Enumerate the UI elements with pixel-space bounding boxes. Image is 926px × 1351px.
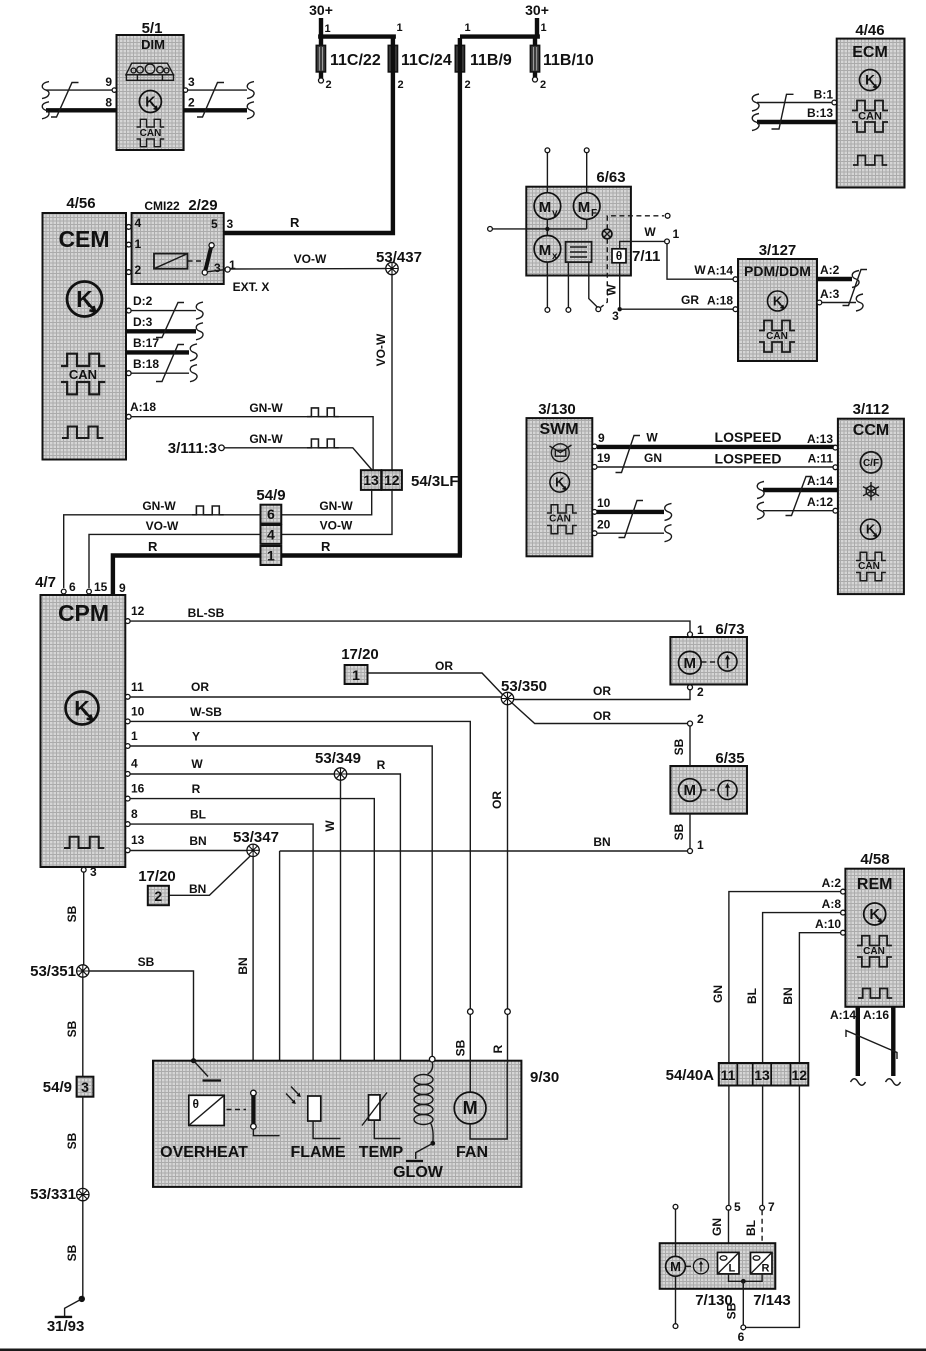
svg-text:1: 1: [135, 237, 142, 251]
slash D:2/D:3 harness: [156, 303, 184, 338]
svg-text:A:8: A:8: [822, 897, 842, 911]
svg-text:B:17: B:17: [133, 336, 159, 350]
fan motor unit 6/73: [670, 621, 747, 685]
svg-text:3: 3: [81, 1079, 89, 1095]
motor Mx: [534, 236, 561, 263]
K icon CEM: [67, 282, 102, 317]
svg-text:OVERHEAT: OVERHEAT: [160, 1144, 248, 1161]
connector 17/20 terminal 1: [341, 646, 379, 684]
wire W splice 53/349 down to FLAME right: [323, 780, 341, 1138]
svg-text:FAN: FAN: [456, 1144, 488, 1161]
wire SB CPM pin3 down left column: [65, 872, 84, 965]
svg-text:L: L: [729, 1263, 736, 1275]
svg-text:B:18: B:18: [133, 357, 159, 371]
svg-text:VO-W: VO-W: [294, 252, 327, 266]
svg-text:11B/10: 11B/10: [543, 52, 594, 69]
svg-text:3: 3: [90, 865, 97, 879]
connector 54/9 terminal 3: [43, 1077, 94, 1097]
mirror timer icon: [693, 1259, 708, 1274]
svg-text:M: M: [684, 782, 697, 799]
svg-text:6: 6: [738, 1330, 745, 1344]
svg-text:13: 13: [131, 833, 145, 847]
glow switch contact: [393, 1141, 444, 1181]
wire W LOSPEED SWM-9 to CCM A:13 (thick): [592, 429, 838, 450]
svg-text:11: 11: [131, 680, 144, 694]
connector 54/9 (6,4,1): [256, 487, 285, 565]
svg-text:1: 1: [131, 729, 138, 743]
6/35 pin2 wire SB: [672, 712, 704, 766]
slash SWM 10/20 harness: [619, 501, 644, 538]
CEM pin B:18 wire: [126, 357, 197, 382]
svg-text:OR: OR: [490, 791, 504, 809]
svg-text:BL: BL: [745, 988, 759, 1004]
PDM pin A:2 wire (thick): [817, 263, 859, 288]
fuse 11B/10: [530, 38, 593, 91]
overheat switch: [251, 1090, 280, 1136]
wiper steering wheel module SWM 3/130: [527, 401, 593, 556]
flame sensor: [290, 1096, 345, 1161]
wire OR splice 53/350 to 6/73 pin2: [514, 684, 690, 700]
wire OR splice 53/350 down to fan connector: [490, 705, 508, 1009]
slash CCM harness: [786, 477, 813, 516]
svg-text:1: 1: [697, 838, 704, 852]
svg-text:5: 5: [734, 1200, 741, 1214]
svg-text:8: 8: [131, 807, 138, 821]
svg-text:R: R: [290, 215, 300, 230]
wire BL REM A:8 to 54/40A-13: [745, 897, 845, 1063]
svg-text:W: W: [191, 757, 203, 771]
K icon CPM: [66, 692, 99, 725]
svg-text:CAN: CAN: [858, 561, 880, 572]
wire VO-W relay 2/29 to splice 53/437: [230, 252, 386, 269]
svg-text:M: M: [539, 199, 552, 216]
wire GN-W 54/9-6 to CPM pin 6: [64, 499, 261, 588]
svg-text:4: 4: [267, 527, 275, 543]
svg-text:OR: OR: [593, 709, 611, 723]
svg-text:LOSPEED: LOSPEED: [715, 429, 782, 445]
svg-text:A:16: A:16: [863, 1008, 889, 1022]
wire GR 7/11 pin3 to PDM A:18: [612, 263, 738, 323]
square wave icon ECM: [853, 156, 887, 166]
svg-text:R: R: [148, 539, 158, 554]
wire R thick 54/9-1 to CPM pin 9: [113, 539, 261, 596]
svg-text:6/73: 6/73: [715, 621, 744, 638]
CAN icon PDM: [759, 321, 795, 353]
svg-text:OR: OR: [435, 659, 453, 673]
REM pin A:14 wire (thick): [830, 1006, 866, 1085]
svg-text:EXT. X: EXT. X: [233, 280, 270, 294]
K icon SWM: [550, 473, 570, 493]
svg-text:12: 12: [384, 472, 400, 488]
svg-text:53/351: 53/351: [30, 963, 76, 980]
svg-text:10: 10: [131, 705, 145, 719]
K icon PDM: [768, 291, 788, 311]
CEM pin B:17 wire (thick): [126, 336, 197, 361]
CAN icon SWM: [547, 505, 577, 534]
power feed 30+ right: [460, 2, 549, 37]
svg-text:31/93: 31/93: [47, 1318, 85, 1335]
svg-text:53/331: 53/331: [30, 1186, 76, 1203]
svg-text:BN: BN: [236, 957, 250, 974]
fuse 11B/9: [455, 45, 512, 91]
svg-text:B:1: B:1: [814, 88, 834, 102]
svg-text:A:10: A:10: [815, 917, 841, 931]
svg-text:1: 1: [397, 22, 403, 34]
splice 53/437: [376, 249, 422, 275]
wire R thick 54/9-1 right to fuse 11B/9: [281, 553, 462, 557]
svg-text:M: M: [684, 655, 697, 672]
svg-text:3/112: 3/112: [853, 401, 890, 418]
svg-text:2: 2: [540, 79, 546, 91]
wire R CPM pin16 to TEMP left: [125, 782, 374, 1095]
wire splice 53/347 to connector 17/20-2: [169, 856, 251, 896]
svg-text:CAN: CAN: [140, 128, 162, 139]
svg-text:1: 1: [697, 623, 704, 637]
svg-text:9/30: 9/30: [530, 1069, 559, 1086]
ECM pin B:1 wire: [752, 88, 837, 112]
svg-text:BL-SB: BL-SB: [188, 606, 225, 620]
central electronic module CEM 4/56: [43, 195, 127, 460]
square wave icon REM: [858, 989, 892, 999]
svg-text:A:14: A:14: [830, 1008, 856, 1022]
svg-text:4: 4: [131, 757, 138, 771]
svg-text:3/111:3: 3/111:3: [168, 440, 217, 457]
K icon REM: [864, 903, 886, 925]
wire OR 17/20-1 to splice 53/350: [368, 659, 504, 695]
svg-text:A:18: A:18: [707, 294, 733, 308]
svg-text:12: 12: [792, 1067, 808, 1083]
svg-text:R: R: [762, 1263, 770, 1275]
wire GN-W 54/3LF-13 to 54/9-6: [281, 490, 371, 515]
svg-text:17/20: 17/20: [341, 646, 379, 663]
SWM pin 10 wire (thick): [592, 496, 671, 520]
svg-text:15: 15: [94, 580, 108, 594]
wire SB splice 53/351 to 9/30 ground: [89, 955, 194, 1061]
6/35 pin1 wire SB: [672, 814, 704, 854]
svg-text:6: 6: [267, 506, 275, 522]
svg-text:SB: SB: [138, 955, 155, 969]
6/73 pin2 stub: [688, 685, 705, 699]
svg-text:SB: SB: [65, 1244, 79, 1261]
heater assembly 9/30: [153, 1061, 559, 1187]
svg-text:θ: θ: [616, 249, 623, 263]
svg-text:7: 7: [768, 1200, 775, 1214]
svg-text:3: 3: [214, 261, 221, 275]
svg-text:54/9: 54/9: [43, 1079, 72, 1096]
slash REM A:14/A:16 harness: [846, 1031, 897, 1060]
DIM pin 2 wire (thick): [184, 96, 254, 119]
motor M 6/73: [679, 651, 718, 674]
power distribution module PDM/DDM 3/127: [738, 242, 817, 361]
svg-text:GN: GN: [710, 1218, 724, 1236]
svg-text:F: F: [591, 208, 597, 219]
wire R splice 53/349 to TEMP right: [347, 758, 401, 1094]
svg-text:SB: SB: [725, 1302, 739, 1319]
svg-text:2: 2: [398, 79, 404, 91]
wire W CPM pin4 to splice 53/349: [125, 757, 340, 777]
svg-text:53/437: 53/437: [376, 249, 422, 266]
svg-text:A:2: A:2: [820, 263, 840, 277]
motor My: [534, 193, 561, 220]
CAN icon CCM: [856, 552, 886, 581]
wire BN CPM pin13 to splice 53/347: [125, 833, 247, 853]
svg-text:4/58: 4/58: [860, 851, 889, 868]
slash B:17/B:18 harness: [156, 345, 184, 382]
slash ECM harness: [772, 94, 794, 129]
svg-text:W: W: [694, 263, 706, 277]
svg-text:CCM: CCM: [853, 422, 889, 439]
CEM pin D:3 wire (thick): [126, 315, 203, 340]
svg-text:9: 9: [105, 75, 112, 89]
CCM pin A:14 wire (thick): [757, 474, 838, 499]
CPM top pin 6: [61, 580, 76, 594]
svg-text:2: 2: [326, 79, 332, 91]
svg-text:OR: OR: [593, 684, 611, 698]
square wave icon CPM: [64, 837, 104, 848]
wire OR splice 53/350 to 6/35 pin2: [512, 703, 687, 724]
svg-text:SB: SB: [672, 823, 686, 840]
wire GN LOSPEED SWM-19 to CCM A:11: [592, 451, 838, 470]
svg-text:11C/24: 11C/24: [401, 52, 452, 69]
K icon DIM: [139, 91, 161, 113]
svg-text:R: R: [321, 539, 331, 554]
svg-text:53/347: 53/347: [233, 829, 279, 846]
REM pin A:16 wire (thick): [863, 1006, 901, 1085]
heated mirror element L 7/130: [695, 1252, 739, 1309]
wire BN splice 53/347 down to overheat switch: [236, 857, 253, 1091]
wire SB mirror elements to pin6: [725, 1274, 763, 1344]
svg-text:4/7: 4/7: [35, 574, 56, 591]
mirror motor M: [666, 1256, 693, 1276]
wire BN REM A:10 to 54/40A-12: [781, 917, 845, 1063]
PDM pin A:3 wire: [817, 287, 863, 311]
svg-text:R: R: [377, 758, 386, 772]
svg-text:BN: BN: [781, 987, 795, 1004]
svg-text:30+: 30+: [525, 2, 549, 18]
wire VO-W 54/3LF-12 to 54/9-4: [281, 490, 392, 535]
svg-text:D:3: D:3: [133, 315, 153, 329]
svg-text:2: 2: [154, 888, 162, 904]
svg-text:2: 2: [697, 712, 704, 726]
svg-text:LOSPEED: LOSPEED: [715, 451, 782, 467]
svg-text:1: 1: [352, 667, 360, 683]
wire VO-W splice 53/437 down to 54/3LF pin 12: [374, 275, 392, 471]
wire R feed from 11C/24 down to relay 2/29: [194, 38, 393, 248]
CPM bottom pin 3: [81, 865, 97, 879]
engine control module ECM 4/46: [837, 22, 905, 188]
svg-text:20: 20: [597, 518, 611, 532]
wire BN overheat switch to 6/35 pin1: [280, 835, 688, 1136]
svg-text:SB: SB: [65, 1020, 79, 1037]
svg-text:9: 9: [119, 581, 126, 595]
svg-text:1: 1: [673, 227, 680, 241]
connector 54/3LF: [361, 470, 459, 490]
wire BL CPM pin8 to FLAME left: [125, 807, 313, 1096]
svg-text:4: 4: [135, 216, 142, 230]
svg-text:CAN: CAN: [69, 367, 97, 382]
K icon CCM: [861, 519, 881, 539]
timer icon 6/73: [718, 652, 737, 671]
svg-text:CAN: CAN: [549, 514, 571, 525]
svg-text:W-SB: W-SB: [190, 705, 222, 719]
slash SWM 9/19 harness: [616, 436, 641, 473]
C/F icon CCM: [860, 452, 881, 473]
fan connector pins SB / R: [454, 1009, 511, 1064]
svg-text:2: 2: [135, 263, 142, 277]
svg-text:BL: BL: [190, 808, 206, 822]
svg-text:W: W: [323, 820, 337, 832]
svg-text:4/46: 4/46: [855, 22, 884, 39]
wire Y CPM pin1 to glow pin: [125, 729, 432, 1057]
connector 3/111:3 wire GN-W: [168, 432, 372, 470]
svg-text:CEM: CEM: [58, 226, 109, 252]
svg-text:1: 1: [541, 22, 547, 34]
svg-text:3/130: 3/130: [538, 401, 576, 418]
svg-text:54/40A: 54/40A: [666, 1067, 715, 1084]
svg-text:CPM: CPM: [58, 600, 109, 626]
svg-text:D:2: D:2: [133, 294, 153, 308]
svg-text:M: M: [670, 1259, 681, 1274]
relay switch 2/29: [202, 243, 230, 275]
mirror unit housing 7/130 7/143: [660, 1243, 776, 1289]
svg-text:7/143: 7/143: [753, 1292, 791, 1309]
svg-text:PDM/DDM: PDM/DDM: [744, 263, 811, 279]
svg-text:SB: SB: [65, 905, 79, 922]
svg-text:Y: Y: [192, 730, 200, 744]
relay coil 2/29: [154, 254, 203, 269]
splice 53/351: [30, 963, 89, 980]
svg-text:A:14: A:14: [707, 264, 733, 278]
svg-text:1: 1: [325, 23, 331, 35]
connector 17/20 terminal 2: [138, 868, 206, 905]
svg-text:GN-W: GN-W: [249, 401, 283, 415]
CAN icon ECM: [852, 101, 888, 133]
lamp symbol 6/63: [602, 229, 612, 239]
svg-text:11B/9: 11B/9: [470, 52, 512, 69]
svg-text:GN-W: GN-W: [249, 432, 283, 446]
svg-text:TEMP: TEMP: [359, 1144, 404, 1161]
wire W 7/11 to pin 1: [620, 225, 680, 249]
svg-text:3/127: 3/127: [759, 242, 797, 259]
rear electronic module REM 4/58: [845, 851, 904, 1007]
mirror motor stub wires: [673, 1204, 678, 1328]
svg-text:BL: BL: [744, 1220, 758, 1236]
svg-text:4/56: 4/56: [66, 195, 95, 212]
snowflake icon CCM: [863, 482, 879, 500]
CAN icon REM: [857, 936, 892, 967]
svg-text:8: 8: [105, 96, 112, 110]
svg-text:BN: BN: [189, 882, 206, 896]
svg-text:DIM: DIM: [141, 37, 165, 52]
fuse 11C/24: [388, 45, 452, 91]
svg-text:2: 2: [697, 685, 704, 699]
ground 31/93: [47, 1296, 85, 1335]
slash right DIM harness: [197, 83, 224, 118]
svg-text:2: 2: [465, 79, 471, 91]
svg-text:GR: GR: [681, 293, 699, 307]
svg-text:9: 9: [598, 431, 605, 445]
wire GN REM A:2 to 54/40A-11: [711, 876, 845, 1063]
temp sensor: [359, 1093, 404, 1162]
svg-text:5: 5: [211, 217, 218, 231]
wire SB 53/351 down to 54/9-3: [65, 977, 83, 1076]
CEM pin A:18 wire GN-W to 54/3LF: [126, 400, 373, 470]
wire GN 54/40A-11 to 7/130 pin5: [710, 1086, 741, 1253]
splice 53/349: [315, 750, 361, 780]
svg-text:OR: OR: [191, 680, 209, 694]
svg-text:13: 13: [363, 472, 379, 488]
svg-text:CAN: CAN: [858, 111, 882, 123]
svg-text:SB: SB: [65, 1132, 79, 1149]
svg-text:54/3LF: 54/3LF: [411, 473, 459, 490]
climate power module CPM 4/7: [35, 574, 125, 867]
ECM pin B:13 wire (thick): [752, 106, 837, 131]
svg-text:GN-W: GN-W: [319, 499, 353, 513]
CPM top pin 15: [87, 580, 108, 594]
svg-text:W: W: [644, 225, 656, 239]
svg-text:2: 2: [188, 96, 195, 110]
wire W pin1 to PDM A:14: [667, 244, 738, 282]
svg-text:13: 13: [754, 1067, 770, 1083]
motor MF: [573, 193, 600, 220]
svg-text:W: W: [605, 284, 619, 296]
heater unit 6/63: [526, 169, 631, 276]
overheat sensor box: [160, 1095, 248, 1161]
CEM pin 2 wire to 2/29 coil: [126, 269, 170, 275]
svg-text:BN: BN: [189, 834, 206, 848]
SWM pin 20 wire: [592, 518, 671, 542]
svg-text:GN: GN: [644, 451, 662, 465]
svg-text:A:11: A:11: [808, 452, 834, 466]
svg-text:M: M: [463, 1098, 478, 1118]
splice 53/347: [233, 829, 279, 857]
timer icon 6/35: [718, 781, 737, 800]
svg-text:17/20: 17/20: [138, 868, 176, 885]
svg-text:12: 12: [131, 604, 145, 618]
svg-text:SB: SB: [672, 738, 686, 755]
flame light arrows: [286, 1087, 301, 1105]
svg-text:53/349: 53/349: [315, 750, 361, 767]
slash left DIM harness: [51, 83, 79, 118]
svg-text:19: 19: [597, 451, 611, 465]
splice 53/350: [501, 678, 547, 705]
wire VO-W 54/9-4 to CPM pin 15: [89, 519, 261, 588]
wire BL 54/40A-13 to 7/143 pin7: [744, 1086, 775, 1253]
cluster gauges icon: [126, 63, 174, 80]
svg-text:CAN: CAN: [766, 331, 788, 342]
svg-text:x: x: [552, 251, 558, 262]
fan motor unit 6/35: [670, 750, 747, 814]
svg-text:1: 1: [267, 548, 275, 564]
svg-text:y: y: [552, 208, 558, 219]
wire BL-SB CPM pin12 to 6/73 pin1: [125, 604, 690, 632]
splice 53/331: [30, 1186, 89, 1203]
svg-text:7/11: 7/11: [632, 248, 660, 265]
heater element wires: [566, 262, 601, 312]
svg-text:11C/22: 11C/22: [330, 52, 381, 69]
svg-text:VO-W: VO-W: [146, 519, 179, 533]
connector 54/40A: [666, 1063, 809, 1086]
wire Mx bottom stub: [545, 262, 550, 312]
svg-text:3: 3: [612, 309, 619, 323]
svg-text:C/F: C/F: [863, 458, 879, 469]
power feed 30+ left: [309, 2, 403, 37]
instrument module DIM 5/1: [117, 20, 184, 150]
svg-text:M: M: [578, 199, 591, 216]
relay 2/29: [132, 197, 270, 294]
DIM pin 8 wire (thick): [42, 96, 117, 119]
svg-text:REM: REM: [857, 876, 893, 893]
